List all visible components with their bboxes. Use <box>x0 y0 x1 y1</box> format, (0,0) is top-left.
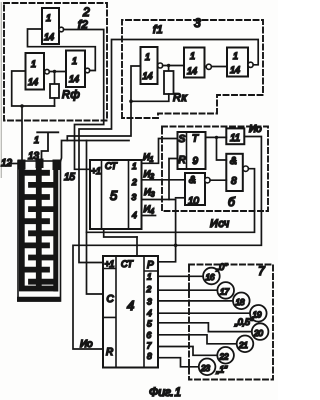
wire: resistor Rf bottom to bottom rail <box>54 98 56 106</box>
wire: DD2.2 output to DD2.3 input <box>211 66 227 68</box>
svg-text:3: 3 <box>132 192 137 202</box>
wire: R input of trigger 9 from I3 trunk <box>169 159 178 200</box>
antenna symbol 1 (electrode) <box>37 132 58 159</box>
sensor right electrode rail (from terminal 15) <box>53 163 58 289</box>
output bubble gate DD2.2 <box>206 64 211 69</box>
svg-text:1: 1 <box>72 56 77 66</box>
scan artifact left edge <box>0 2 2 178</box>
lamp 18 <box>233 293 250 310</box>
svg-text:+1: +1 <box>91 166 101 176</box>
svg-text:S: S <box>179 134 186 145</box>
svg-text:1: 1 <box>34 135 39 145</box>
svg-text:Ио: Ио <box>80 339 93 350</box>
svg-text:C: C <box>107 294 115 305</box>
svg-text:2: 2 <box>82 5 90 19</box>
wire: DD2.3 output feedback to DD2.1 input via top rail <box>79 40 258 263</box>
humidity sensor outline <box>18 161 61 301</box>
svg-text:17: 17 <box>220 287 229 297</box>
sensor terminal 13 <box>36 159 44 169</box>
svg-text:14: 14 <box>230 65 240 75</box>
wire: DD2.1 output to DD2.2 input <box>163 65 184 67</box>
svg-text:4: 4 <box>127 298 134 313</box>
wire: link down into counter 4 top <box>136 237 138 256</box>
wire: CT4 pin2 to lamp 17 <box>158 289 217 291</box>
svg-text:1: 1 <box>147 272 152 282</box>
svg-text:R к: R к <box>173 92 187 104</box>
svg-text:21: 21 <box>238 340 248 350</box>
svg-text:1: 1 <box>46 13 51 23</box>
svg-text:„1”: „1” <box>216 365 229 375</box>
inverter gate DD1.1 (top, box 2) <box>42 8 59 44</box>
svg-text:19: 19 <box>253 310 262 320</box>
wire I4 stub: CT5 pin4 <box>142 215 156 217</box>
svg-text:+1: +1 <box>105 259 115 269</box>
dashed box 6 (control unit) <box>162 127 268 212</box>
resistor Rf <box>50 84 59 98</box>
dashed box 7 (indicator) <box>189 265 273 380</box>
wire: label 12 tick to terminal <box>10 163 18 165</box>
junction node (216.5,137.4) <box>215 136 218 139</box>
lamp 20 <box>252 323 269 340</box>
svg-text:1: 1 <box>190 51 195 61</box>
wire: C trunk down to counter 4 C input <box>87 141 104 295</box>
svg-text:CT: CT <box>105 161 118 171</box>
lamp 16 <box>203 268 220 285</box>
svg-text:&: & <box>189 175 196 186</box>
output bubble gate DD2.3 <box>248 62 253 67</box>
wire: branch down to gate 8 input 1 <box>217 137 227 160</box>
lamp 21 <box>237 336 254 353</box>
sensor center spine (from terminal 13) <box>36 162 42 286</box>
svg-text:18: 18 <box>236 297 245 307</box>
trigger T 9 <box>178 132 206 169</box>
svg-text:8: 8 <box>231 176 237 187</box>
wire: CT4 pin8 to lamp 23 <box>158 358 199 367</box>
svg-text:9: 9 <box>193 156 199 167</box>
svg-text:R ф: R ф <box>62 89 79 101</box>
sensor finger row 6 <box>31 230 54 236</box>
svg-text:&: & <box>230 156 237 167</box>
svg-text:Фиг. 1: Фиг. 1 <box>149 385 181 399</box>
dashed box 2 (oscillator f2) <box>4 3 107 121</box>
svg-text:1: 1 <box>31 59 36 69</box>
wire: junction down to resistor Rk <box>168 66 170 72</box>
sensor finger row 8 <box>31 255 54 261</box>
svg-text:„0”: „0” <box>216 262 229 272</box>
inverter gate DD1.2 (left, box 2) <box>26 53 45 90</box>
output bubble gate DD1.1 <box>59 27 64 32</box>
sensor finger row 5 <box>25 218 47 224</box>
svg-text:4: 4 <box>132 210 137 220</box>
wire: terminal 15 up and right (to C trunk) <box>59 141 129 167</box>
sensor finger row 1 <box>25 170 47 176</box>
svg-text:14: 14 <box>69 74 79 84</box>
svg-text:14: 14 <box>187 66 197 76</box>
sensor left electrode rail (from terminal 12) <box>22 163 54 289</box>
svg-text:CT: CT <box>121 259 134 269</box>
svg-text:И сч: И сч <box>210 218 229 230</box>
svg-text:5: 5 <box>147 319 152 329</box>
wire: CT4 pin4 to lamp 19 <box>158 312 250 314</box>
sensor finger row 10 <box>31 279 54 285</box>
sensor finger row 2 <box>31 182 54 188</box>
wire I1: CT5 pin1 to S input of trigger 9 <box>142 139 178 164</box>
wire: CT4 pin7 to lamp 22 <box>158 347 217 356</box>
svg-text:R: R <box>106 347 113 358</box>
lamp 22 <box>217 347 234 364</box>
svg-text:11: 11 <box>230 133 240 144</box>
svg-text:5: 5 <box>110 188 118 203</box>
svg-text:1: 1 <box>145 52 150 62</box>
svg-text:1: 1 <box>233 51 238 61</box>
svg-text:8: 8 <box>147 351 152 361</box>
wire: CT4 pin1 to lamp 16 <box>158 275 203 277</box>
svg-text:4: 4 <box>147 308 152 318</box>
junction node f1 (131,101.3) <box>129 100 133 104</box>
inverter gate DD2.3 (right, box 3) <box>227 48 248 77</box>
svg-text:Ио: Ио <box>249 124 262 135</box>
junction node (175.6,245.3) <box>174 244 178 248</box>
output bubble gate DD1.3 <box>85 68 90 73</box>
svg-text:3: 3 <box>147 297 152 307</box>
wire I2: CT5 pin2 to gate 10 input <box>142 179 186 181</box>
svg-text:14: 14 <box>44 32 54 42</box>
svg-text:f 1: f 1 <box>153 24 163 36</box>
wire: CT5 bottom to CT4 top link <box>104 229 137 237</box>
sensor finger row 9 <box>25 267 47 273</box>
wire: gate 10 output to gate 8 input 2 <box>210 179 226 181</box>
sensor terminal 12 <box>18 160 26 170</box>
wire I3: CT5 pin3 to gate 10 / R trunk <box>142 200 176 262</box>
sensor finger row 4 <box>31 206 54 212</box>
svg-text:P: P <box>147 260 154 271</box>
wire: f1 node down and left to counter 4 +1 trunk <box>67 101 131 140</box>
svg-text:6: 6 <box>147 330 152 340</box>
svg-text:2: 2 <box>131 177 137 187</box>
wire: CT4 pin5 to lamp 20 <box>158 323 252 332</box>
block 11 (one-shot) <box>226 128 244 144</box>
wire f2: DD1.1 output to the right and down <box>64 30 104 170</box>
output bubble gate 8 <box>243 166 248 171</box>
sensor bottom bar <box>20 297 59 302</box>
wire Io: block 11 output down to R bus <box>73 137 261 350</box>
svg-text:14: 14 <box>28 77 38 87</box>
sensor finger row 7 <box>25 242 47 248</box>
output bubble gate DD1.2 <box>45 69 50 74</box>
sensor terminal 15 <box>53 160 61 171</box>
inverter gate DD2.2 (middle, box 3) <box>184 48 205 78</box>
wire: CT4 pin3 to lamp 18 <box>158 300 233 302</box>
wire Isch: gate 8 output down-left to counter trunk <box>87 169 255 233</box>
counter CT5 block <box>90 160 142 229</box>
inverter gate DD2.1 (left, box 3) <box>141 47 158 84</box>
lamp 23 <box>199 359 216 376</box>
inverter gate DD1.3 (right, box 2) <box>66 51 85 88</box>
svg-text:1: 1 <box>132 161 137 171</box>
svg-text:20: 20 <box>253 328 263 338</box>
sensor finger row 3 <box>25 194 47 200</box>
svg-text:R: R <box>179 155 186 166</box>
wire: DD1.2 input loop (left side and bottom rail of box 2) <box>12 71 55 106</box>
svg-text:10: 10 <box>188 196 199 207</box>
output bubble gate DD2.1 <box>158 63 163 68</box>
wire: CT4 pin6 to lamp 21 <box>158 335 237 344</box>
svg-text:3: 3 <box>194 16 201 30</box>
gate & 8 <box>226 154 243 191</box>
wire: trigger 9 output to block 11 input <box>206 136 227 138</box>
svg-text:15: 15 <box>64 172 75 183</box>
counter CT4 block <box>103 256 158 368</box>
output bubble gate 10 <box>205 178 210 183</box>
svg-text:22: 22 <box>219 352 229 362</box>
junction node Rk top <box>167 64 170 67</box>
svg-text:2: 2 <box>146 284 152 294</box>
junction node Rf top <box>53 70 56 73</box>
wire: junction down to resistor Rf <box>54 72 56 85</box>
wire: box2 node down to terminal 12 <box>21 106 23 160</box>
lamp 17 <box>217 282 234 299</box>
gate & 10 <box>185 173 205 205</box>
resistor Rk <box>164 71 174 94</box>
svg-text:23: 23 <box>200 363 210 373</box>
wire: DD1.2 output to DD1.3 input <box>49 71 66 73</box>
svg-text:7: 7 <box>147 341 152 351</box>
lamp 19 <box>250 305 267 322</box>
svg-text:16: 16 <box>206 272 215 282</box>
svg-text:„0,5“: „0,5“ <box>234 317 254 327</box>
junction node at (22,106) <box>20 104 24 108</box>
svg-text:14: 14 <box>143 71 153 81</box>
wire: DD2.1 input from node x=131 <box>131 66 141 101</box>
wire: gate 10 lower input <box>176 197 185 199</box>
dashed box 3 (oscillator f1) <box>122 20 263 118</box>
wire: DD1.3 output to DD1.1 input (feedback) <box>28 29 96 71</box>
wire: resistor Rk bottom rail to node at x=131 <box>131 94 169 101</box>
